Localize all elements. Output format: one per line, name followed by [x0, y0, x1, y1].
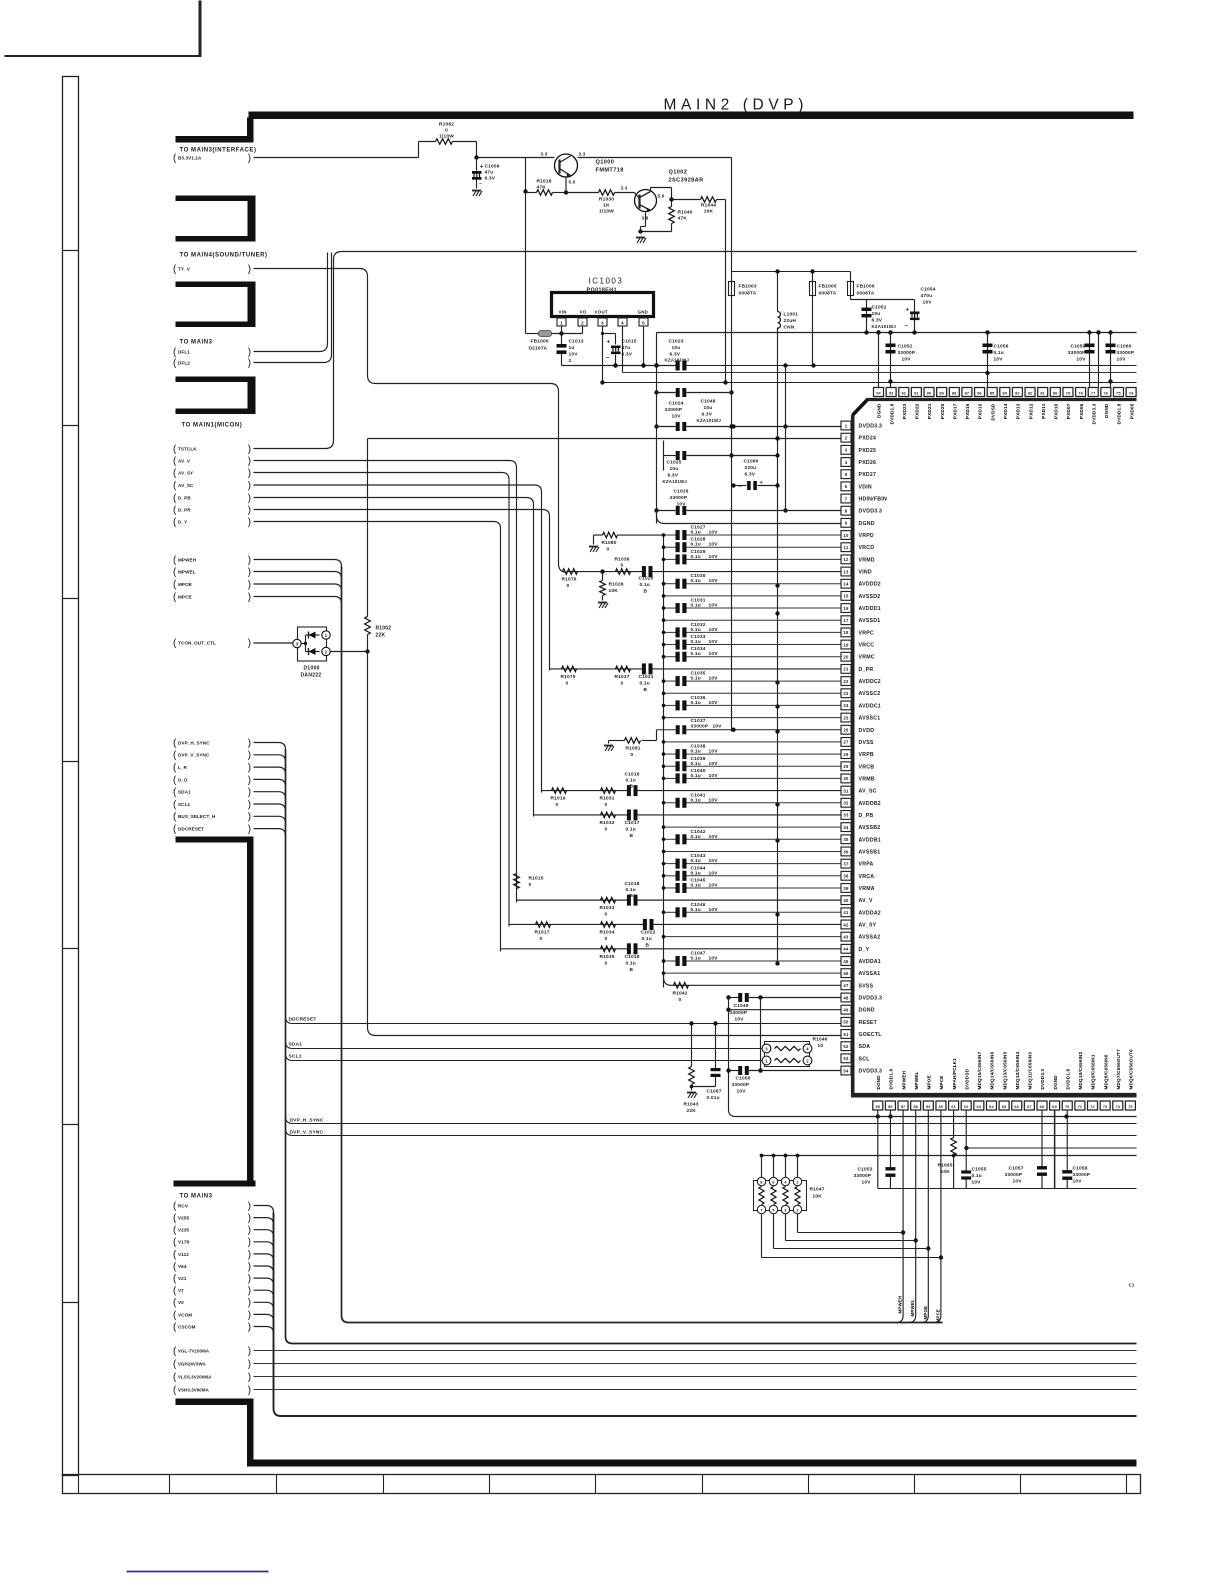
svg-text:DVDD3.3: DVDD3.3 — [1091, 403, 1096, 424]
IC pin 12 VRMD — [841, 555, 851, 564]
IC pin 15 AVSSD2 — [841, 591, 851, 600]
svg-text:VRPB: VRPB — [859, 752, 874, 758]
svg-text:V235: V235 — [178, 1228, 189, 1233]
svg-text:V21: V21 — [178, 1276, 187, 1281]
bottom supply bus bar — [249, 1460, 1137, 1467]
svg-text:C1026: C1026 — [674, 489, 689, 495]
IC pin 19 VRCC — [841, 640, 851, 649]
transistor Q1002 2SC3928AR — [635, 190, 657, 212]
svg-text:SCL1: SCL1 — [289, 1054, 302, 1060]
svg-text:1K: 1K — [603, 203, 610, 209]
svg-text:−: − — [739, 484, 742, 490]
svg-text:74: 74 — [1129, 392, 1134, 396]
wire pin9 DGND — [657, 511, 841, 524]
IC pin 33 D_PB — [841, 811, 851, 820]
svg-text:B: B — [644, 687, 648, 693]
IC pin 54 DVDD3.3 — [841, 1066, 851, 1075]
svg-text:80: 80 — [1053, 392, 1058, 396]
svg-text:46: 46 — [843, 971, 849, 976]
wire pin25 to GND rail — [664, 717, 841, 719]
svg-text:0.1u: 0.1u — [626, 826, 636, 832]
IC pin 44 D_Y — [841, 944, 851, 953]
wire R1018 node down to FB1000 — [525, 192, 527, 334]
IC top pin 90 PXD21 — [924, 388, 934, 397]
svg-text:PXD24: PXD24 — [859, 436, 877, 442]
svg-text:MPAH/PCLK1: MPAH/PCLK1 — [952, 1058, 957, 1090]
svg-text:10V: 10V — [902, 357, 912, 363]
IC pin 26 DVDD — [841, 725, 851, 734]
svg-text:0008TA: 0008TA — [857, 291, 875, 297]
svg-text:10V: 10V — [677, 502, 687, 508]
wire pin46 to GND rail — [664, 972, 841, 974]
svg-text:DVDD3.3: DVDD3.3 — [1040, 1068, 1045, 1089]
svg-text:85: 85 — [990, 392, 995, 396]
svg-text:): ) — [248, 1261, 251, 1272]
svg-text:HDIN/FBIN: HDIN/FBIN — [859, 497, 887, 503]
svg-text:SCL1: SCL1 — [178, 802, 190, 807]
wire DVDD rail x785 — [785, 366, 787, 511]
svg-text:): ) — [248, 738, 251, 749]
svg-text:2: 2 — [569, 358, 572, 364]
svg-text:TY_V: TY_V — [178, 266, 191, 271]
capacitor C1035 0.1u 10V / wire pin22 — [664, 680, 676, 682]
wire V178 merge — [254, 1242, 274, 1249]
page frame corner (top-left) — [199, 1, 202, 58]
svg-text:): ) — [248, 824, 251, 835]
svg-text:33000P: 33000P — [691, 723, 709, 729]
capacitor C1057 33000P 10V — [1041, 1110, 1043, 1167]
svg-text:43: 43 — [843, 934, 849, 939]
svg-text:10V: 10V — [1076, 357, 1086, 363]
svg-text:C1019: C1019 — [625, 954, 640, 960]
svg-text:10u: 10u — [704, 405, 713, 411]
IC pin 42 AV_SY — [841, 920, 851, 929]
svg-text:SDA1: SDA1 — [178, 790, 191, 795]
capacitor C1090 220u 6.3V — [734, 485, 747, 487]
svg-text:87: 87 — [965, 392, 970, 396]
capacitor C1087 0.01u — [713, 1021, 717, 1025]
svg-text:1u: 1u — [569, 345, 575, 351]
svg-text:0: 0 — [566, 680, 569, 686]
capacitor C1054 470u 16V — [914, 300, 916, 333]
svg-text:): ) — [248, 468, 251, 479]
svg-text:37: 37 — [843, 861, 849, 866]
svg-text:93: 93 — [889, 392, 894, 396]
ground (R1081) — [604, 745, 613, 747]
svg-text:R1076: R1076 — [562, 577, 577, 583]
IC U1001 DVP processor outline — [853, 399, 868, 415]
svg-text:TO MAIN3: TO MAIN3 — [180, 340, 213, 346]
IC pin 40 AV_V — [841, 896, 851, 905]
svg-text:AVDDD2: AVDDD2 — [859, 582, 881, 588]
svg-text:0.1u: 0.1u — [994, 350, 1004, 356]
svg-text:50: 50 — [843, 1020, 849, 1025]
svg-text:0.1u: 0.1u — [691, 907, 701, 913]
svg-text:): ) — [248, 567, 251, 578]
svg-text:AVDDD1: AVDDD1 — [859, 606, 881, 612]
svg-text:VRPD: VRPD — [859, 533, 874, 539]
IC bottom pin 67 MDQ11/C656IN3 — [1024, 1101, 1034, 1110]
svg-text:R1018: R1018 — [537, 179, 552, 185]
svg-text:0.1u: 0.1u — [691, 761, 701, 767]
connector bracket J-MAIN3 (DFL) — [176, 282, 256, 288]
resistor R1082 0 1/10W — [436, 139, 453, 145]
svg-text:C1020: C1020 — [639, 576, 654, 582]
IC top pin 76 DGND — [1101, 388, 1111, 397]
svg-text:): ) — [248, 787, 251, 798]
wire RCV bus vertical — [274, 1213, 282, 1417]
IC bottom pin 75 MDQ6/C656OUT6 — [1125, 1101, 1135, 1110]
svg-text:0.1u: 0.1u — [691, 773, 701, 779]
svg-text:R1043: R1043 — [684, 1102, 699, 1108]
svg-text:D210TA: D210TA — [529, 346, 548, 352]
svg-text:0.1u: 0.1u — [691, 639, 701, 645]
svg-text:C1021: C1021 — [639, 674, 654, 680]
svg-text:6.3V: 6.3V — [622, 352, 633, 358]
svg-text:20: 20 — [843, 655, 849, 660]
capacitor C1052 33000P 10V — [890, 333, 892, 388]
svg-text:15: 15 — [843, 594, 849, 599]
ferrite bead FB1003 0008TA — [731, 272, 733, 282]
svg-text:V7: V7 — [178, 1288, 184, 1293]
svg-text:0: 0 — [605, 936, 608, 942]
svg-text:57: 57 — [901, 1105, 906, 1109]
svg-text:AVDDA2: AVDDA2 — [859, 910, 881, 916]
svg-text:0.1u: 0.1u — [691, 578, 701, 584]
svg-text:0: 0 — [607, 547, 610, 553]
svg-text:63: 63 — [977, 1105, 982, 1109]
svg-text:0: 0 — [631, 752, 634, 758]
svg-text:): ) — [248, 1237, 251, 1248]
svg-text:VRPA: VRPA — [859, 862, 874, 868]
IC pin 38 VRCA — [841, 871, 851, 880]
svg-text:R1028: R1028 — [609, 582, 624, 588]
svg-text:U_D: U_D — [178, 777, 188, 782]
IC top pin 74 PXD05 — [1126, 388, 1136, 397]
IC top pin 93 DVDD1.8 — [886, 388, 896, 397]
resistor pack R1047 10K — [754, 1181, 807, 1211]
capacitor C1038 0.1u 10V / wire pin28 — [664, 753, 676, 755]
svg-text:35: 35 — [843, 837, 849, 842]
wire pin49 DGND — [729, 1009, 841, 1011]
svg-text:TSTCLK: TSTCLK — [178, 446, 197, 451]
svg-text:VRCB: VRCB — [859, 764, 875, 770]
svg-text:0: 0 — [445, 128, 448, 134]
svg-text:77: 77 — [1091, 392, 1096, 396]
svg-text:R1065: R1065 — [938, 1163, 953, 1169]
svg-text:54: 54 — [843, 1068, 849, 1073]
svg-text:VIND: VIND — [859, 570, 872, 576]
svg-text:FB1005: FB1005 — [819, 284, 837, 290]
IC pin 41 AVDDA2 — [841, 908, 851, 917]
svg-text:R1081: R1081 — [626, 746, 641, 752]
svg-text:10: 10 — [818, 1043, 824, 1049]
svg-text:V64: V64 — [178, 1264, 187, 1269]
capacitor C1032 0.1u 10V / wire pin18 — [664, 631, 676, 633]
svg-text:81: 81 — [1040, 392, 1045, 396]
svg-text:VDIN: VDIN — [859, 484, 872, 490]
svg-text:AVSSA1: AVSSA1 — [859, 971, 881, 977]
svg-text:0: 0 — [605, 960, 608, 966]
svg-text:0: 0 — [556, 802, 559, 808]
capacitor C1031 0.1u 10V / wire pin16 — [664, 607, 676, 609]
svg-text:D1000: D1000 — [304, 666, 320, 672]
wire AV_V — [254, 461, 517, 903]
svg-text:Q1000: Q1000 — [596, 160, 615, 166]
svg-text:22K: 22K — [687, 1108, 697, 1114]
connector bracket J-MAIN4(SOUND/TUNER) — [176, 196, 256, 202]
svg-text:DDCRESET: DDCRESET — [178, 827, 204, 832]
svg-text:R1040: R1040 — [678, 210, 693, 216]
IC bottom pin 73 MDQ8/C656IN0 — [1100, 1101, 1110, 1110]
IC pin 29 VRCB — [841, 762, 851, 771]
IC bottom pin 71 MDQ10/C656IN2 — [1075, 1101, 1085, 1110]
IC1003 pin 2 — [578, 318, 587, 326]
svg-text:MPOE: MPOE — [178, 582, 192, 587]
resistor pack R1046 10 (SDA/SCL) — [765, 1042, 810, 1067]
svg-text:MDQ12/C656IN4: MDQ12/C656IN4 — [1015, 1051, 1020, 1089]
IC pin 1 DVDD3.3 — [841, 421, 851, 430]
svg-text:C1022: C1022 — [641, 929, 656, 935]
wire pin47 SVSS / resistor R1042 0 — [664, 973, 841, 985]
wire MPOE merge — [254, 584, 342, 591]
svg-text:C1050: C1050 — [736, 1076, 751, 1082]
svg-text:MPOE: MPOE — [923, 1306, 928, 1320]
svg-text:10V: 10V — [709, 761, 719, 767]
wire DVP_V_SYNC branch — [286, 1129, 1137, 1136]
wire DGND rail x656 — [656, 333, 658, 524]
svg-text:R1044: R1044 — [701, 203, 716, 209]
svg-text:DGND: DGND — [859, 521, 875, 527]
wire IC1003 pin5 GND — [643, 326, 645, 366]
wire MP drop pin59 — [921, 1110, 928, 1323]
IC top pin 87 PXD16 — [962, 388, 972, 397]
svg-text:R1030: R1030 — [599, 197, 614, 203]
svg-text:B3.3V1.2A: B3.3V1.2A — [178, 155, 202, 160]
wire R1047 pin1 to MPWEH — [797, 1214, 799, 1233]
capacitor C1056 0.1u 10V — [987, 333, 989, 388]
svg-text:IC1003: IC1003 — [589, 277, 624, 286]
IC bottom pin 68 DVDD3.3 — [1037, 1101, 1047, 1110]
svg-text:D_PB: D_PB — [178, 495, 191, 500]
svg-text:5.0: 5.0 — [569, 180, 576, 185]
svg-text:0: 0 — [540, 936, 543, 942]
wire D_PB — [254, 498, 534, 817]
wire pin42 AV_SY line / resistor R1017 0 / R1034 0 / capacitor C1022 0.1u B — [509, 923, 644, 925]
svg-text:V112: V112 — [178, 1252, 189, 1257]
connector bracket J-MAIN1(MICON) — [176, 377, 256, 383]
capacitor C1041 0.1u 10V / wire pin32 — [664, 802, 676, 804]
capacitor C1026 33000P 10V / wire pin8 — [657, 510, 676, 512]
svg-text:MDQ15/C656IN7: MDQ15/C656IN7 — [977, 1051, 982, 1089]
svg-text:DVP_V_SYNC: DVP_V_SYNC — [178, 753, 210, 758]
svg-text:MPCE: MPCE — [939, 1075, 944, 1089]
svg-text:10V: 10V — [709, 858, 719, 864]
svg-text:DGND: DGND — [1053, 1075, 1058, 1090]
svg-text:VRMC: VRMC — [859, 655, 875, 661]
wire pin43 to GND rail — [664, 936, 841, 938]
svg-text:RESET: RESET — [859, 1020, 878, 1026]
svg-text:AVSSA2: AVSSA2 — [859, 935, 881, 941]
svg-text:B: B — [630, 833, 634, 839]
svg-text:0.1u: 0.1u — [691, 542, 701, 548]
blue footer line — [127, 1571, 269, 1573]
svg-text:56: 56 — [888, 1105, 893, 1109]
svg-text:C1017: C1017 — [625, 820, 640, 826]
IC1003 pin 4 — [618, 318, 627, 326]
wire DDCRESET merge — [254, 829, 286, 836]
svg-text:10V: 10V — [672, 414, 682, 420]
svg-text:5.0: 5.0 — [658, 194, 665, 199]
svg-text:0.1u: 0.1u — [691, 749, 701, 755]
wire under-IC rail y1116 — [736, 1116, 1137, 1118]
svg-text:−: − — [905, 324, 909, 330]
svg-text:33000P: 33000P — [665, 407, 683, 413]
wire R1047 pin5 to MPOE — [773, 1214, 775, 1249]
capacitor C1049 33000P 10V / wire pin48 — [729, 996, 739, 998]
svg-text:): ) — [248, 1213, 251, 1224]
svg-text:): ) — [248, 775, 251, 786]
svg-text:C1055: C1055 — [972, 1167, 987, 1173]
svg-text:DVDD: DVDD — [859, 728, 875, 734]
svg-text:10V: 10V — [709, 542, 719, 548]
resistor R1081 0 — [656, 730, 658, 741]
capacitor C1027 0.1u 10V / wire pin10 — [664, 534, 676, 536]
svg-text:0.01u: 0.01u — [707, 1095, 720, 1101]
svg-text:10V: 10V — [709, 834, 719, 840]
svg-text:): ) — [248, 493, 251, 504]
svg-text:1: 1 — [845, 423, 848, 428]
wire pin40 AV_V line / resistor R1033 0 / capacitor C1018 0.1u B — [517, 899, 628, 901]
svg-text:0.1u: 0.1u — [640, 680, 650, 686]
IC pin 48 DVDD3.3 — [841, 993, 851, 1002]
svg-text:): ) — [248, 1372, 251, 1383]
svg-text:MPWEH: MPWEH — [898, 1296, 903, 1314]
svg-text:R1082: R1082 — [439, 122, 454, 128]
svg-text:−: − — [606, 356, 610, 362]
svg-text:10V: 10V — [709, 700, 719, 706]
IC top pin 89 PXD20 — [937, 388, 947, 397]
svg-text:PXD17: PXD17 — [952, 403, 957, 419]
svg-text:): ) — [248, 1310, 251, 1321]
wire DVP_H_SYNC branch — [286, 1117, 1137, 1124]
svg-text:V0: V0 — [178, 1300, 184, 1305]
svg-text:D_PR: D_PR — [178, 507, 191, 512]
capacitor C1051 10u 6.3V KZA101WJ — [866, 300, 868, 333]
svg-text:0: 0 — [605, 826, 608, 832]
svg-text:MPWEL: MPWEL — [178, 569, 196, 574]
svg-text:65: 65 — [1002, 1105, 1007, 1109]
wire Q1000 collector to +rail — [578, 157, 732, 159]
capacitor C1024 33000P 10V / wire pin1 — [657, 426, 676, 428]
svg-text:KZA101WJ: KZA101WJ — [663, 479, 688, 484]
svg-text:+: + — [906, 308, 910, 314]
capacitor C1039 0.1u 10V / wire pin29 — [664, 765, 676, 767]
IC top pin 75 DVDD1.8 — [1113, 388, 1123, 397]
svg-text:28: 28 — [843, 752, 849, 757]
svg-text:VSH3.3V90MA: VSH3.3V90MA — [178, 1387, 210, 1392]
wire pin27 to GND rail — [664, 741, 841, 743]
svg-text:R1032: R1032 — [600, 820, 615, 826]
svg-text:PXD16: PXD16 — [965, 403, 970, 419]
svg-text:R1017: R1017 — [535, 929, 550, 935]
IC pin 10 VRPD — [841, 531, 851, 540]
svg-text:10V: 10V — [709, 530, 719, 536]
svg-text:C1057: C1057 — [1009, 1166, 1024, 1172]
IC pin 21 D_PR — [841, 665, 851, 674]
svg-text:58: 58 — [913, 1105, 918, 1109]
svg-text:76: 76 — [1104, 392, 1109, 396]
svg-text:PXD21: PXD21 — [927, 403, 932, 419]
IC pin 8 DVDD3.3 — [841, 506, 851, 515]
svg-text:AVSSB1: AVSSB1 — [859, 849, 881, 855]
connector bottom-left step — [176, 1399, 254, 1406]
svg-text:0: 0 — [605, 802, 608, 808]
wire pin44 D_Y line / resistor R1035 0 / capacitor C1019 0.1u B — [501, 948, 628, 950]
IC pin 49 DGND — [841, 1005, 851, 1014]
svg-text:12: 12 — [843, 557, 849, 562]
svg-text:DVP_V_SYNC: DVP_V_SYNC — [290, 1130, 324, 1136]
svg-text:34: 34 — [843, 825, 849, 830]
svg-text:PXD05: PXD05 — [1129, 403, 1134, 419]
wire B3.3V to R1082 — [254, 157, 419, 159]
svg-text:10V: 10V — [1117, 357, 1127, 363]
wire VGL-7V100MA — [254, 1350, 1137, 1352]
svg-text:23: 23 — [843, 691, 849, 696]
svg-text:VO: VO — [580, 310, 587, 315]
svg-text:C1024: C1024 — [669, 401, 684, 407]
IC pin 37 VRPA — [841, 859, 851, 868]
svg-text:0.1u: 0.1u — [691, 627, 701, 633]
svg-text:V255: V255 — [178, 1216, 189, 1221]
svg-text:33000P: 33000P — [1068, 350, 1086, 356]
svg-text:): ) — [248, 1286, 251, 1297]
IC bottom pin 62 DVDDSD — [961, 1101, 971, 1110]
svg-text:C1054: C1054 — [921, 287, 936, 293]
wire Q1002 collector — [650, 188, 652, 192]
svg-text:MDQ10/C656IN2: MDQ10/C656IN2 — [1078, 1051, 1083, 1089]
wire pin13 VIND line / resistor R1076 0 / R1036 0 / capacitor C1020 0.1u B — [567, 571, 643, 573]
wire pin33 D_PB line / resistor R1032 0 / capacitor C1017 0.1u B — [534, 814, 628, 816]
capacitor C1013 1u 10V — [561, 334, 563, 345]
capacitor C1009 47u 6.3V — [474, 155, 478, 159]
svg-text:R1080: R1080 — [602, 540, 617, 546]
ferrite bead FB1006 0008TA — [850, 272, 852, 282]
svg-text:25: 25 — [843, 715, 849, 720]
svg-text:10V: 10V — [1073, 1179, 1083, 1185]
svg-text:PXD11: PXD11 — [1041, 403, 1046, 419]
svg-text:47: 47 — [843, 983, 849, 988]
svg-text:0.1u: 0.1u — [691, 834, 701, 840]
svg-text:): ) — [248, 1274, 251, 1285]
wire MPWEH merge — [254, 560, 342, 567]
svg-text:0.1u: 0.1u — [626, 778, 636, 784]
svg-text:PXD13: PXD13 — [1016, 403, 1021, 419]
ferrite bead FB1005 0008TA — [812, 272, 814, 282]
left margin strip — [63, 77, 79, 1476]
IC pin 20 VRMC — [841, 652, 851, 661]
capacitor C1034 0.1u 10V / wire pin20 — [664, 656, 676, 658]
wire MP drop pin57 — [896, 1110, 903, 1323]
svg-text:): ) — [248, 517, 251, 528]
capacitor C1042 0.1u 10V / wire pin35 — [664, 838, 676, 840]
IC bottom pin 64 MDQ14/C656IN6 — [986, 1101, 996, 1110]
svg-text:10V: 10V — [737, 1089, 747, 1095]
svg-text:R1035: R1035 — [600, 954, 615, 960]
svg-text:220u: 220u — [745, 465, 757, 471]
svg-text:0.1u: 0.1u — [691, 554, 701, 560]
svg-text:AVDDC2: AVDDC2 — [859, 679, 881, 685]
